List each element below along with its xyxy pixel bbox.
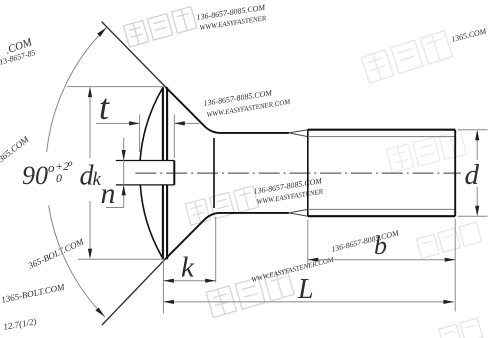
head face line right xyxy=(166,87,168,259)
d bottom extension line xyxy=(458,215,488,217)
dk top extension line xyxy=(67,86,164,88)
t dimension line left tail with arrow xyxy=(96,122,140,124)
L arrow left xyxy=(163,300,174,304)
k arrow left xyxy=(163,279,174,283)
svg-text:k: k xyxy=(181,252,195,284)
dk dimension line xyxy=(89,89,91,257)
watermark bottom-center xyxy=(206,269,294,317)
90 deg angle extension line bottom xyxy=(102,259,165,325)
thread major diameter top xyxy=(308,129,455,131)
n arrow up (below slot) xyxy=(122,185,126,196)
svg-text:0: 0 xyxy=(56,171,62,185)
watermark bottom-right xyxy=(439,318,483,338)
L dimension line xyxy=(163,301,454,303)
watermark top-center xyxy=(123,7,196,47)
arrowhead bottom of angle arc xyxy=(95,307,106,318)
svg-text:L: L xyxy=(297,274,314,305)
t extension line at slot bottom xyxy=(173,115,175,159)
dk arrow up xyxy=(88,87,92,98)
90 deg angle extension line top xyxy=(102,22,166,87)
screw end face xyxy=(454,130,456,217)
b dimension line xyxy=(308,259,455,261)
svg-text:1365.COM: 1365.COM xyxy=(450,26,488,44)
thread runout bottom V xyxy=(289,209,308,216)
n arrow down (above slot) xyxy=(122,150,126,161)
k arrow right xyxy=(205,279,216,283)
t dimension line right tail with arrow xyxy=(174,122,199,124)
svg-text:365-BOLT.COM: 365-BOLT.COM xyxy=(26,236,86,271)
thread minor diameter bottom xyxy=(308,208,455,210)
L arrow right xyxy=(443,300,454,304)
centerline (screw axis) xyxy=(135,172,461,174)
b left extension (thread start, below screw) xyxy=(307,220,309,266)
head face line left (dk circle edge) xyxy=(162,87,164,259)
b arrow right xyxy=(445,258,456,262)
svg-text:d: d xyxy=(465,159,480,191)
thread start line xyxy=(307,130,309,217)
n dimension line through slot xyxy=(106,138,124,208)
dk bottom extension line xyxy=(78,258,164,260)
raised dome arc of head xyxy=(140,88,163,259)
svg-text:o: o xyxy=(48,160,55,175)
b/L right extension (screw end) xyxy=(454,219,456,312)
watermark right-middle xyxy=(416,222,481,258)
d arrow down xyxy=(475,206,479,217)
slot top edge with extension xyxy=(116,160,175,162)
d arrow up xyxy=(475,130,479,141)
arrowhead top of angle arc xyxy=(97,26,108,37)
t extension line at dome apex xyxy=(139,115,141,153)
d dimension line xyxy=(476,132,478,214)
watermark top-right xyxy=(361,31,452,84)
thread minor diameter top xyxy=(308,136,455,138)
d top extension line xyxy=(458,129,488,131)
watermark inside thread area xyxy=(387,131,467,173)
dk arrow down xyxy=(88,249,92,260)
thread runout top V xyxy=(289,130,308,137)
b arrow left xyxy=(308,258,319,262)
cone top edge + fillet + shank top line xyxy=(165,87,289,133)
k right extension line xyxy=(215,217,217,283)
thread major diameter bottom xyxy=(308,215,455,217)
svg-text:90: 90 xyxy=(22,161,48,190)
slot bottom edge with extension xyxy=(116,184,175,186)
slot bottom (depth) line xyxy=(173,161,175,185)
svg-text:12.7(1/2): 12.7(1/2) xyxy=(3,316,37,332)
k dimension line xyxy=(163,280,215,282)
90 deg dimension arc xyxy=(47,28,107,317)
cone bottom edge + fillet + shank bottom line xyxy=(165,213,289,259)
svg-text:1365-BOLT.COM: 1365-BOLT.COM xyxy=(0,282,66,305)
svg-text:t: t xyxy=(99,87,110,127)
svg-text:n: n xyxy=(101,177,116,210)
watermark center-right xyxy=(185,186,258,225)
svg-text:b: b xyxy=(374,231,387,260)
svg-text:136-8657-8085.COM: 136-8657-8085.COM xyxy=(330,228,401,254)
k reference line inside shank xyxy=(213,138,215,208)
k left extension line (head face plane) xyxy=(162,261,164,314)
svg-text:o: o xyxy=(68,158,73,168)
